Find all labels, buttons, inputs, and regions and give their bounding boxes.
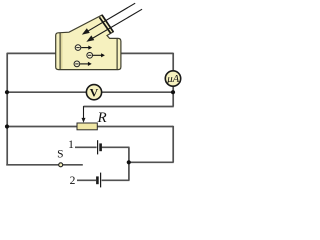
phototube right cap inner line xyxy=(116,39,118,69)
battery cell 2 short plate xyxy=(96,176,99,184)
wire: tube left lead xyxy=(7,52,56,54)
svg-text:S: S xyxy=(57,149,63,161)
svg-text:μA: μA xyxy=(166,73,179,85)
svg-text:1: 1 xyxy=(68,139,74,151)
wire: voltmeter row xyxy=(7,91,173,93)
phototube left cap shading xyxy=(61,33,63,69)
light ray 2 xyxy=(88,9,142,41)
junction dot at left V row xyxy=(5,90,9,94)
svg-text:V: V xyxy=(90,85,99,99)
wire: switch row xyxy=(6,164,58,166)
wire: slider tap horizontal xyxy=(84,106,174,108)
wire: right bus through microammeter xyxy=(172,53,174,92)
junction dot at left R row xyxy=(5,124,9,128)
electron e1 xyxy=(75,45,92,51)
window inner cap line xyxy=(99,17,110,33)
wire: tube right lead xyxy=(121,52,174,54)
svg-text:2: 2 xyxy=(70,175,76,187)
battery cell 1 long plate xyxy=(97,140,99,154)
window outer cap line xyxy=(102,15,113,32)
wire: battery junction to right bus xyxy=(129,161,174,163)
electron e2 xyxy=(87,52,105,58)
wire: left bus vertical xyxy=(6,53,8,166)
wire: tap riser from V junction down to tap line xyxy=(172,92,174,106)
wire: rheostat row xyxy=(7,126,173,128)
junction dot at right V row xyxy=(171,90,175,94)
wire: right lower bus xyxy=(172,126,174,163)
wire: battery branch 1 left xyxy=(75,146,97,148)
wire: switch blade xyxy=(63,164,83,166)
light ray 1 xyxy=(83,3,135,34)
switch S xyxy=(59,163,63,167)
wire: battery branches joining vertical xyxy=(128,147,130,180)
junction dot at battery join xyxy=(127,160,131,164)
wire: battery branch 2 left xyxy=(77,179,96,181)
electron e3 xyxy=(74,61,92,67)
wire: battery branch 1 right xyxy=(102,146,130,148)
svg-text:R: R xyxy=(97,110,107,126)
phototube left cap inner line xyxy=(59,33,61,69)
microammeter U1 xyxy=(165,71,180,86)
battery cell 2 long plate xyxy=(100,173,102,188)
battery cell 1 short plate xyxy=(99,143,102,151)
voltmeter V xyxy=(86,85,101,100)
wire: battery branch 2 right xyxy=(102,179,130,181)
rheostat R xyxy=(77,106,97,130)
phototube body xyxy=(56,15,121,70)
